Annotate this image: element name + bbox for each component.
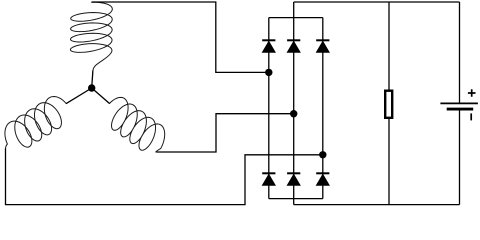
bridge leg 3 wire	[322, 18, 324, 199]
top bus wire	[269, 17, 323, 19]
resistor R1 bottom lead	[388, 118, 390, 205]
battery B1 bottom lead	[459, 109, 461, 205]
coil L3 (lower-right winding)	[110, 97, 165, 152]
wire L1 to star point	[92, 70, 93, 88]
wire L3 outer lead	[157, 114, 294, 152]
bottom bus wire	[269, 198, 323, 200]
battery plus label	[468, 89, 476, 97]
coil L1 (top phase winding)	[70, 2, 112, 70]
diode D4	[262, 173, 275, 185]
node phase C junction	[319, 151, 326, 158]
wire L1 top lead	[92, 2, 269, 72]
battery B1 top lead	[459, 2, 461, 103]
positive rail wire	[294, 1, 460, 3]
battery minus label	[470, 113, 472, 120]
bridge leg 1 wire	[268, 18, 270, 199]
battery B1 negative plate	[447, 108, 474, 111]
diode D5	[287, 173, 300, 185]
resistor R1 body	[385, 91, 392, 118]
diode D2	[287, 40, 300, 52]
bridge leg 2 wire	[293, 2, 295, 205]
node phase B junction	[290, 110, 297, 117]
wire L2 to star point	[66, 88, 92, 104]
diode D6	[316, 173, 329, 185]
diode D1	[262, 40, 275, 52]
node phase A junction	[265, 69, 272, 76]
star point node	[88, 84, 95, 91]
wire L2 outer lead	[6, 149, 323, 205]
negative rail wire	[294, 204, 460, 206]
coil L2 (lower-left winding)	[5, 96, 66, 150]
wire L3 to star point	[92, 88, 110, 104]
diode D3	[316, 40, 329, 52]
battery B1 positive plate	[440, 102, 478, 104]
resistor R1 top lead	[388, 2, 390, 91]
